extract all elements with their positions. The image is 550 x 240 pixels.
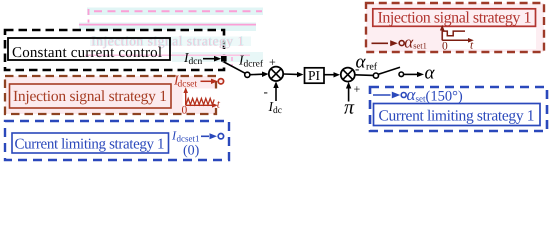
current limiting strategy 1 dashed box (right) xyxy=(370,87,547,131)
summer 2 xyxy=(341,68,355,82)
ghost highlight band 1 xyxy=(87,8,263,16)
svg-text:Constant current control: Constant current control xyxy=(12,45,162,61)
current limiting strategy 1 inner box (left) xyxy=(12,133,169,153)
svg-text:α: α xyxy=(356,52,367,73)
switch arm (left) xyxy=(224,62,246,74)
svg-text:dcset1: dcset1 xyxy=(177,134,200,144)
wire to alpha xyxy=(404,73,418,75)
svg-text:ref: ref xyxy=(366,62,378,73)
Idcset1 circle xyxy=(218,134,223,139)
Idcset1 arrow xyxy=(201,135,209,137)
wire Idcn arrow xyxy=(203,58,216,60)
sawtooth axis vertical xyxy=(185,91,187,105)
switch arm (right) xyxy=(378,67,400,74)
injection strategy 1 dashed box (left) xyxy=(5,76,216,114)
wire pivot to summer 1 xyxy=(250,73,263,76)
constant current control inner box border xyxy=(8,38,170,60)
svg-text:set: set xyxy=(416,94,426,104)
svg-text:0: 0 xyxy=(442,41,448,53)
svg-text:Injection signal strategy 1: Injection signal strategy 1 xyxy=(13,88,167,105)
pi arrow xyxy=(348,88,350,102)
svg-text:Current limiting strategy 1: Current limiting strategy 1 xyxy=(379,108,535,125)
alpha set1 circle xyxy=(399,41,404,46)
svg-text:Injection signal strategy 1: Injection signal strategy 1 xyxy=(378,10,532,27)
svg-text:dcn: dcn xyxy=(189,57,203,67)
step axis vertical xyxy=(441,30,443,40)
ghost solid line 2 xyxy=(79,24,256,26)
sawtooth axis horizontal xyxy=(186,104,213,106)
ghost highlight band 2 xyxy=(79,23,256,32)
svg-text:π: π xyxy=(344,97,355,119)
injection strategy 1 inner box (right) xyxy=(373,9,536,27)
Idcset contact circle xyxy=(218,79,223,84)
ghost highlight band 4 xyxy=(172,52,263,62)
ghost text highlight xyxy=(90,37,251,47)
ghost left edge xyxy=(88,9,90,30)
current limiting strategy 1 dashed box (left) xyxy=(5,121,229,160)
svg-text:set1: set1 xyxy=(413,41,427,51)
step axis horizontal xyxy=(442,39,468,41)
alpha set1 arrow xyxy=(372,42,389,44)
summer 1 xyxy=(269,67,283,81)
constant current control outer dashed box xyxy=(5,30,224,70)
alpha set(150) circle xyxy=(401,93,406,98)
sawtooth white backdrop xyxy=(183,89,219,106)
step white backdrop xyxy=(444,28,536,49)
svg-text:Current limiting strategy 1: Current limiting strategy 1 xyxy=(15,137,165,153)
ghost tick mark xyxy=(231,57,233,67)
switch circle B xyxy=(399,72,404,77)
svg-text:dcref: dcref xyxy=(244,60,264,70)
wire summer1 to PI xyxy=(283,73,297,75)
svg-text:0: 0 xyxy=(182,105,188,117)
svg-text:dc: dc xyxy=(273,106,282,116)
step waveform xyxy=(442,31,465,36)
injection strategy 1 dashed box (right) xyxy=(366,3,544,52)
wire PI to summer2 xyxy=(324,74,334,76)
svg-text:+: + xyxy=(269,55,276,69)
Idc arrow xyxy=(275,88,277,102)
svg-text:(0): (0) xyxy=(183,144,200,159)
wire summer2 to switch xyxy=(355,74,373,77)
current limiting strategy 1 inner box (right) xyxy=(374,104,541,126)
constant current control inner box fill xyxy=(8,38,170,60)
svg-text:α: α xyxy=(425,63,436,84)
alpha set(150) arrow xyxy=(373,94,391,96)
Idcset arrow xyxy=(201,80,212,82)
ghost dashed line top xyxy=(94,10,262,12)
PI box xyxy=(305,68,325,83)
svg-text:+: + xyxy=(354,82,361,96)
injection strategy 1 inner box (left) xyxy=(10,84,172,108)
switch circle A xyxy=(373,73,378,78)
ghost solid line 4 xyxy=(85,54,250,56)
svg-text:(150°): (150°) xyxy=(426,89,463,105)
sawtooth waveform xyxy=(186,98,214,104)
svg-text:-: - xyxy=(264,84,268,99)
svg-text:PI: PI xyxy=(308,68,321,83)
switch pivot circle xyxy=(245,72,250,77)
svg-text:dcset: dcset xyxy=(178,80,198,90)
switch contact square xyxy=(221,56,227,62)
